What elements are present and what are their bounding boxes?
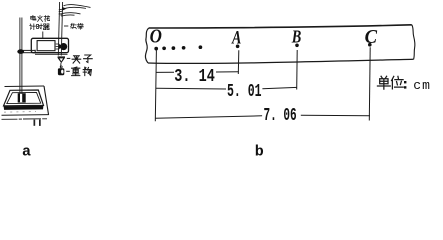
label 夹子	[67, 55, 92, 63]
clamp arm	[23, 50, 35, 54]
tape dot 4	[182, 46, 186, 50]
svg-text:cm: cm	[413, 78, 431, 93]
svg-text:a: a	[22, 143, 31, 156]
C extension line	[368, 47, 371, 120]
tape torn left edge	[145, 28, 148, 63]
stand base inner	[7, 92, 41, 103]
clamp knob on rod	[17, 49, 24, 54]
timer box inner window	[37, 41, 55, 51]
dimension 7.06 line	[155, 115, 370, 118]
dot at C	[368, 43, 372, 47]
svg-text:O: O	[150, 25, 162, 48]
table leg 2	[39, 120, 41, 126]
tape torn right edge	[412, 25, 415, 60]
table front edge	[2, 114, 49, 117]
tape bottom edge	[148, 59, 414, 63]
spark pointer	[59, 44, 62, 50]
O extension line	[155, 50, 156, 121]
timer box bottom shadow	[35, 53, 68, 55]
tape dot 2	[162, 46, 166, 50]
B extension line	[296, 50, 299, 90]
dimension 3.14 line	[156, 71, 239, 74]
base shadow hatch	[4, 111, 36, 113]
leader line to timer	[42, 32, 44, 39]
tape dot 5	[199, 45, 203, 49]
unit label 单位：cm	[377, 76, 431, 93]
dot at A	[236, 45, 240, 49]
dimension 5.01 line	[156, 87, 297, 89]
timer terminal lines	[56, 44, 60, 49]
table right edge	[44, 86, 49, 115]
table leg 1	[34, 120, 36, 126]
svg-text:5. 01: 5. 01	[227, 81, 262, 102]
timer box outer	[31, 38, 68, 52]
dot at O	[154, 47, 158, 51]
stand base front band	[4, 106, 44, 110]
table back edge	[5, 85, 45, 88]
table front lower edge	[2, 118, 48, 121]
paper tape (vertical)	[58, 2, 62, 56]
svg-text:A: A	[231, 26, 241, 48]
A extension line	[237, 50, 240, 74]
svg-text:b: b	[255, 143, 264, 156]
dot at B	[295, 44, 299, 48]
svg-text:3. 14: 3. 14	[174, 66, 215, 87]
stand rod	[20, 18, 22, 96]
hand holding tape	[59, 5, 91, 17]
tape between clamp and weight	[60, 63, 62, 67]
spark wheel	[60, 43, 67, 50]
weight symbol	[58, 66, 64, 75]
tape dot 3	[172, 46, 176, 50]
label 纸带	[64, 23, 83, 29]
rod socket	[18, 93, 26, 102]
label 电火花	[31, 15, 50, 21]
label 计时器	[30, 24, 49, 30]
clamp symbol	[57, 56, 65, 63]
label 重物	[66, 67, 91, 76]
stand base outer	[4, 90, 44, 106]
tape top edge	[149, 25, 412, 28]
svg-text:7. 06: 7. 06	[264, 105, 297, 126]
